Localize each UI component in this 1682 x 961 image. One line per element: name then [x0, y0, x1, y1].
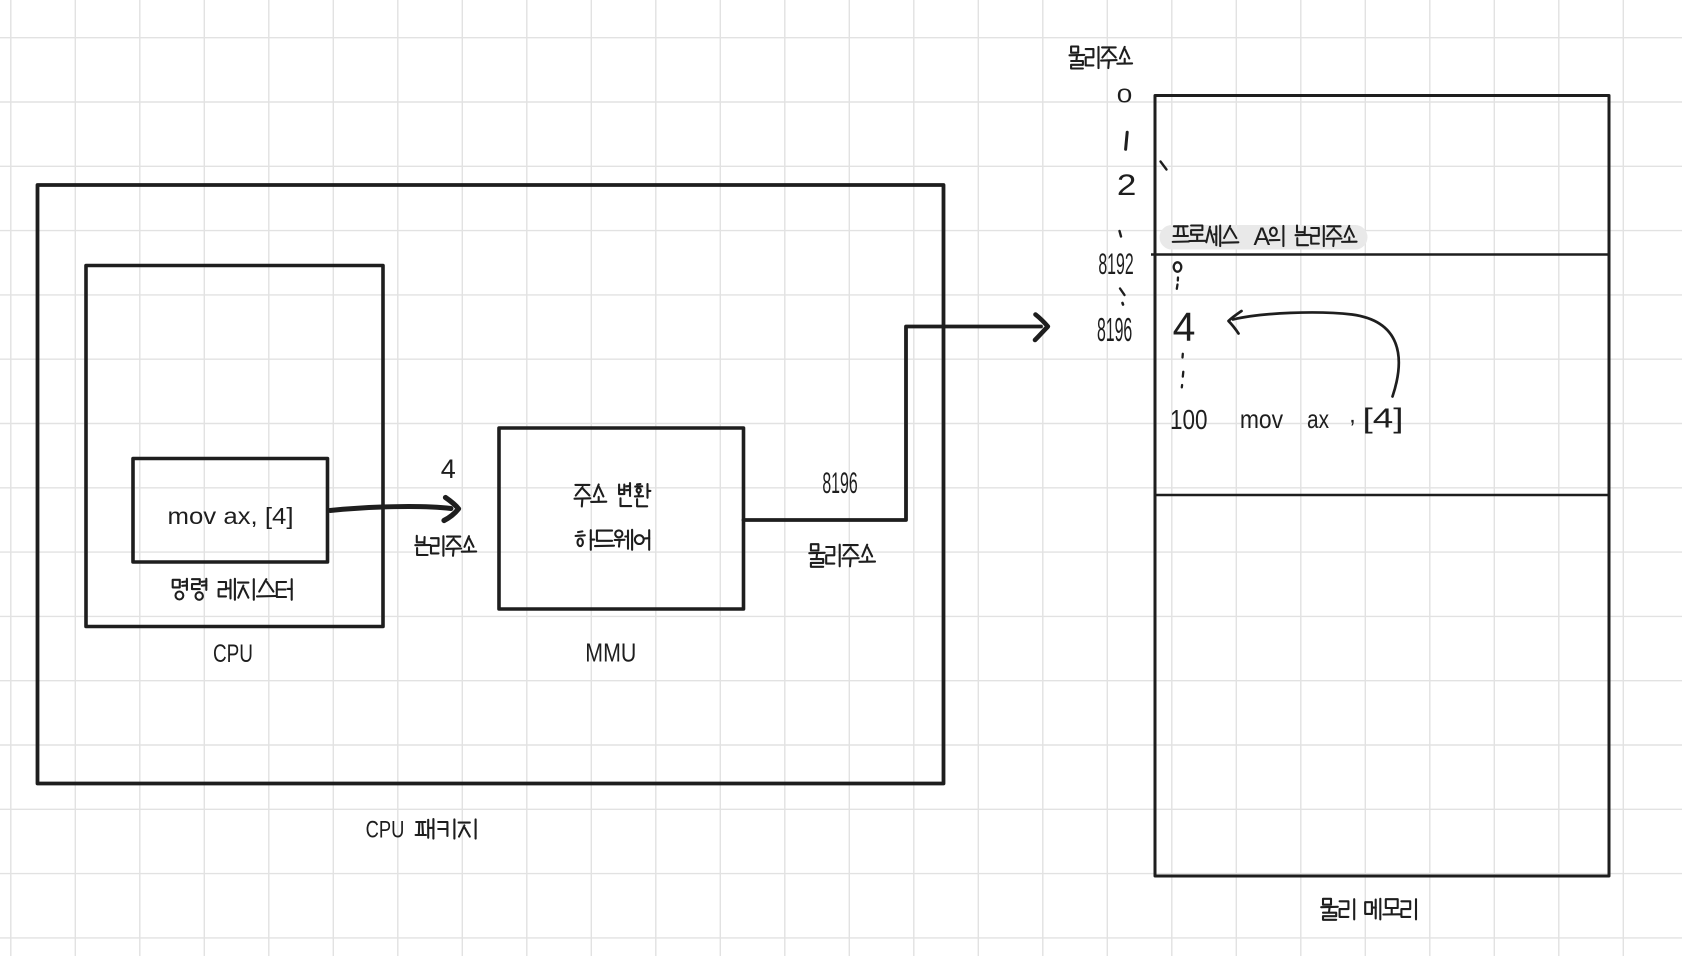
svg-text:8196: 8196 [822, 467, 857, 500]
svg-text:,: , [1349, 401, 1356, 428]
svg-text:MMU: MMU [585, 638, 636, 668]
svg-text:CPU: CPU [213, 640, 253, 668]
svg-text:8196: 8196 [1097, 311, 1132, 348]
svg-text:0: 0 [1117, 86, 1133, 108]
svg-text:mov: mov [1240, 404, 1283, 434]
svg-text:2: 2 [1117, 169, 1137, 202]
svg-text:mov ax, [4]: mov ax, [4] [168, 503, 294, 529]
svg-text:100: 100 [1170, 404, 1208, 435]
svg-text:A: A [1253, 223, 1270, 251]
svg-text:CPU: CPU [366, 816, 405, 843]
svg-text:4: 4 [1173, 304, 1196, 350]
svg-text:[4]: [4] [1363, 402, 1404, 433]
svg-text:8192: 8192 [1098, 248, 1133, 281]
svg-text:4: 4 [441, 454, 456, 484]
svg-text:ax: ax [1307, 404, 1329, 434]
